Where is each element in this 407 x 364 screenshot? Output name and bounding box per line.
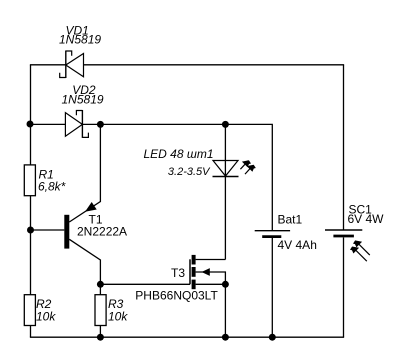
LED emission arrow 2 [245, 165, 256, 174]
LED diode [213, 161, 239, 177]
wire bottom rail [30, 336, 344, 338]
svg-text:6,8k*: 6,8k* [38, 180, 66, 194]
svg-text:LED 48 шт1: LED 48 шт1 [144, 147, 214, 161]
svg-text:1N5819: 1N5819 [59, 33, 101, 47]
transistor T1 collector lead [69, 124, 100, 222]
svg-text:6V 4W: 6V 4W [348, 212, 385, 226]
node C: LED column x VD2 line [222, 121, 229, 128]
node B: collector column x VD2 line [97, 121, 104, 128]
battery Bat1 negative plate [262, 235, 281, 238]
wire left rail [30, 65, 32, 337]
svg-text:10k: 10k [36, 310, 56, 324]
node E: emitter junction [97, 281, 104, 288]
svg-text:1N5819: 1N5819 [62, 93, 104, 107]
transistor T3 body arrow [202, 268, 210, 276]
svg-text:T3: T3 [171, 266, 185, 280]
transistor T3 gate line [189, 259, 191, 284]
svg-text:PHB66NQ03LT: PHB66NQ03LT [135, 289, 218, 303]
svg-text:10k: 10k [108, 310, 128, 324]
transistor T1 arrow [85, 202, 97, 212]
node D: base junction on left rail [27, 227, 34, 234]
resistor R2 [24, 295, 35, 326]
solar cell SC1 negative plate [333, 235, 354, 238]
resistor R1 [24, 165, 35, 196]
wire right rail SC1 column [343, 65, 345, 337]
solar cell SC1 light arrow 2 [350, 247, 367, 262]
wire LED cathode to T3 drain [196, 259, 226, 261]
wire source to bottom rail [224, 284, 226, 337]
diode VD1 [60, 51, 84, 79]
wire base of T1 [31, 229, 65, 231]
transistor T3 source segment [192, 280, 196, 290]
transistor T3 drain segment [192, 255, 196, 265]
wire T3 source lead [196, 283, 226, 285]
wire R3 column [99, 284, 101, 337]
solar cell SC1 light arrow 1 [353, 240, 370, 255]
svg-text:Bat1: Bat1 [278, 213, 303, 227]
node H: source column x bottom rail [222, 334, 229, 341]
transistor T1 base bar [64, 215, 69, 249]
node A: left rail x VD2 line [27, 121, 34, 128]
svg-text:3.2-3.5V: 3.2-3.5V [168, 166, 211, 178]
wire top rail [30, 64, 344, 66]
svg-text:2N2222A: 2N2222A [77, 225, 127, 239]
diode VD2 [65, 110, 88, 138]
wire T3 gate lead [100, 283, 190, 285]
wire VD2 line [31, 124, 273, 230]
solar cell SC1 positive plate [325, 229, 362, 231]
node F: source-body junction [222, 281, 229, 288]
transistor T1 emitter lead [69, 239, 100, 284]
LED emission arrow 1 [240, 160, 251, 169]
node G: R3 x bottom rail [97, 334, 104, 341]
wire T3 body lead [196, 272, 226, 284]
node I: Bat1 x bottom rail [269, 334, 276, 341]
svg-text:4V 4Ah: 4V 4Ah [278, 238, 317, 252]
wire Bat1 bottom lead [271, 238, 273, 337]
wire LED column [224, 124, 226, 259]
transistor T3 body segment [192, 267, 196, 277]
battery Bat1 positive plate [255, 230, 290, 232]
resistor R3 [95, 295, 106, 326]
